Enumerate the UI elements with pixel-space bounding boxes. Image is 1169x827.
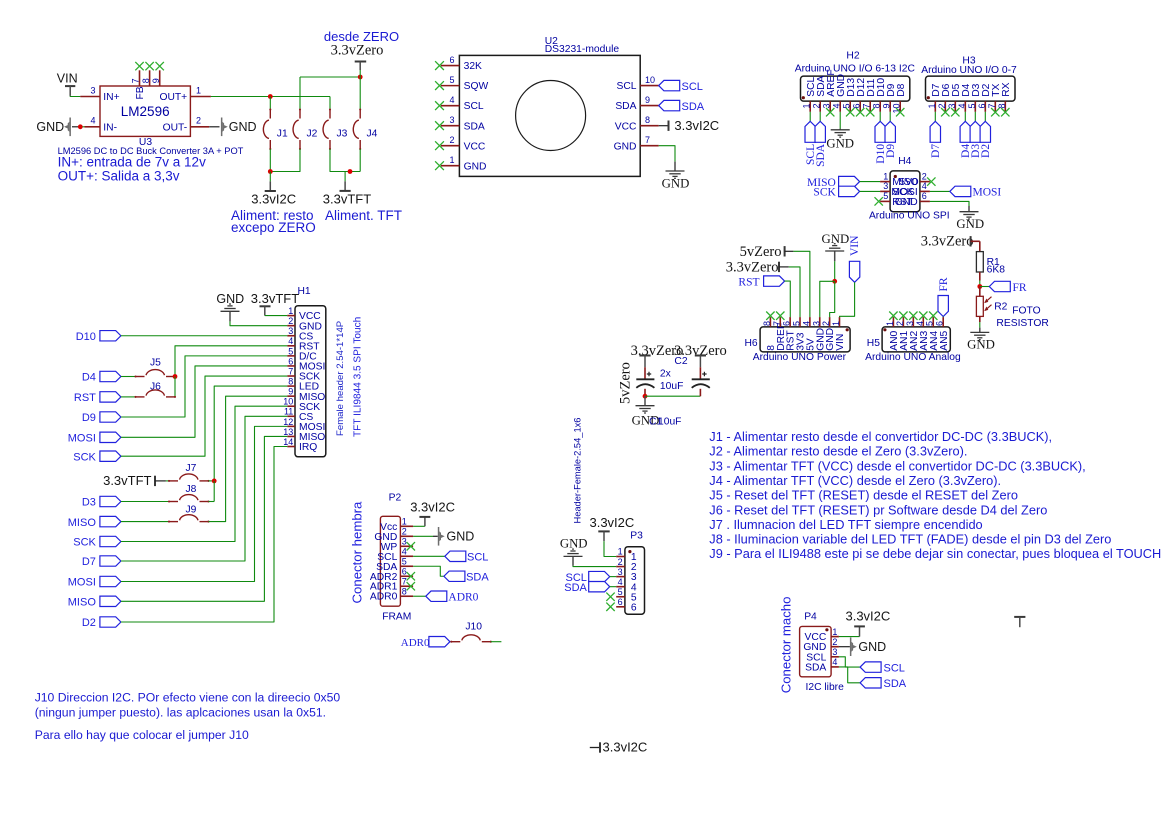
- svg-text:D10: D10: [76, 331, 96, 343]
- jumper J2: [299, 108, 301, 110]
- no-connect H4 pin 5: [875, 197, 883, 205]
- power flag 3.3vI2C loose bottom: [590, 747, 600, 749]
- P3 pin 3: [616, 576, 625, 578]
- svg-text:RESISTOR: RESISTOR: [996, 318, 1048, 329]
- svg-text:4: 4: [402, 546, 407, 556]
- H1 pin 10 SCK: [287, 405, 295, 407]
- svg-text:6: 6: [402, 566, 407, 576]
- wire 3.3vI2C to P3 pin 1: [604, 541, 616, 556]
- svg-text:GND: GND: [662, 177, 690, 191]
- svg-text:J1: J1: [277, 129, 288, 140]
- svg-text:SCK: SCK: [73, 451, 96, 463]
- H1 pin 12 MOSI: [287, 425, 295, 427]
- svg-text:SDA: SDA: [682, 101, 705, 113]
- svg-text:2: 2: [288, 316, 293, 326]
- svg-text:1: 1: [196, 85, 201, 95]
- svg-text:TFT ILI9844 3.5 SPI Touch: TFT ILI9844 3.5 SPI Touch: [352, 317, 363, 437]
- svg-text:RST: RST: [738, 276, 759, 288]
- label D9 below H2: [889, 112, 891, 122]
- svg-text:4: 4: [957, 104, 967, 109]
- svg-text:9: 9: [288, 387, 293, 397]
- P3 pin 2: [616, 566, 625, 568]
- svg-text:SCK: SCK: [813, 187, 836, 199]
- svg-text:VIN: VIN: [835, 334, 846, 351]
- H1 pin 9 MISO: [287, 395, 295, 397]
- svg-text:6: 6: [782, 321, 792, 326]
- svg-text:H1: H1: [298, 286, 311, 297]
- label MISO at H4 pin 1: [839, 176, 860, 186]
- svg-text:5: 5: [288, 346, 293, 356]
- svg-text:2: 2: [937, 104, 947, 109]
- svg-text:1: 1: [885, 321, 895, 326]
- label D4 below H3: [964, 112, 966, 122]
- wire J4 bottom: [359, 149, 361, 172]
- svg-text:3: 3: [449, 115, 454, 125]
- label SDA below H2: [819, 112, 821, 122]
- svg-text:7: 7: [772, 321, 782, 326]
- wire J4 top: [359, 77, 361, 110]
- svg-text:IRQ: IRQ: [299, 442, 317, 453]
- H1 pin 13 MISO: [287, 435, 295, 437]
- wire J5 to J6: [174, 377, 176, 397]
- svg-text:J5 - Reset del TFT (RESET) des: J5 - Reset del TFT (RESET) desde el RESE…: [709, 488, 1018, 503]
- U3 pin 4 IN-: [72, 126, 79, 128]
- svg-text:10: 10: [283, 397, 293, 407]
- svg-text:3.3vZero: 3.3vZero: [331, 43, 384, 59]
- U2 pin 2 VCC: [441, 145, 460, 147]
- svg-text:R2: R2: [994, 301, 1007, 312]
- P3 pin 1: [616, 556, 625, 558]
- svg-text:J4: J4: [367, 129, 378, 140]
- label MISO to H1 pin 13: [100, 596, 121, 606]
- svg-text:P2: P2: [389, 493, 402, 504]
- svg-text:3.3vTFT: 3.3vTFT: [323, 192, 371, 207]
- svg-text:2: 2: [449, 135, 454, 145]
- no-connect P3 pin 5: [606, 593, 614, 601]
- junction OUT+ at J1: [268, 94, 273, 99]
- svg-text:4: 4: [618, 577, 623, 587]
- svg-text:8: 8: [402, 586, 407, 596]
- H1 pin 4 RST: [287, 345, 295, 347]
- no-connect H2 pin 3: [826, 108, 834, 116]
- svg-text:1: 1: [927, 104, 937, 109]
- svg-text:6: 6: [618, 597, 623, 607]
- svg-text:6: 6: [977, 104, 987, 109]
- svg-text:3.3vI2C: 3.3vI2C: [251, 192, 296, 207]
- svg-text:3.3vTFT: 3.3vTFT: [251, 291, 299, 306]
- svg-text:Arduino UNO Power: Arduino UNO Power: [753, 352, 847, 363]
- svg-text:SDA: SDA: [466, 571, 489, 583]
- svg-text:H6: H6: [745, 338, 758, 349]
- label D10 to H1 pin 3: [100, 331, 121, 341]
- power flag 3.3vI2C at U2 VCC: [659, 125, 669, 127]
- wire 3.3vZero bus: [300, 76, 360, 78]
- svg-text:SCL: SCL: [682, 81, 703, 93]
- svg-text:3.3vI2C: 3.3vI2C: [603, 740, 648, 755]
- junction 3.3vZero at J4: [358, 75, 363, 80]
- power symbol GND left of U3: [69, 118, 71, 137]
- svg-text:6: 6: [922, 191, 927, 201]
- svg-text:1: 1: [802, 104, 812, 109]
- svg-text:J10 Direccion I2C. POr efecto: J10 Direccion I2C. POr efecto viene con …: [35, 691, 341, 705]
- svg-text:1: 1: [883, 171, 888, 181]
- svg-text:GND: GND: [956, 217, 984, 231]
- svg-text:RST: RST: [74, 392, 96, 404]
- svg-text:3.3vI2C: 3.3vI2C: [589, 515, 634, 530]
- no-connect H3 pin 8: [1001, 108, 1009, 116]
- H1 pin 6 MOSI: [287, 365, 295, 367]
- svg-text:8: 8: [997, 104, 1007, 109]
- junction J5 right: [173, 374, 178, 379]
- wire C1 to C2 bottom: [645, 395, 700, 397]
- junction at IN- / GND: [78, 124, 83, 129]
- wire H1 pin 8 LED to J7: [214, 386, 287, 481]
- label D2 below H3: [984, 112, 986, 122]
- svg-text:DS3231-module: DS3231-module: [545, 44, 620, 55]
- no-connect H2 pin 6: [856, 108, 864, 116]
- no-connect H6 pin 8: [766, 312, 774, 320]
- svg-text:J8 - Iluminacion variable del: J8 - Iluminacion variable del LED TFT (F…: [709, 532, 1111, 547]
- svg-text:7: 7: [987, 104, 997, 109]
- svg-text:3: 3: [811, 321, 821, 326]
- wire GND to P3 pin 2: [573, 565, 616, 568]
- label RST at H6: [764, 276, 785, 286]
- power symbol GND at P2: [413, 535, 433, 537]
- svg-text:J7 . Ilumnacion del LED TFT si: J7 . Ilumnacion del LED TFT siempre ence…: [709, 517, 982, 532]
- svg-text:GND: GND: [895, 197, 918, 208]
- no-connect H6 pin 7: [776, 312, 784, 320]
- wire RST to H6: [785, 281, 791, 317]
- label MISO to J9: [100, 516, 121, 526]
- svg-text:GND: GND: [464, 161, 487, 172]
- wire J3 top: [329, 97, 331, 110]
- svg-text:FR: FR: [938, 277, 950, 291]
- wire 3.3vTFT to H1 pin 1: [265, 315, 288, 317]
- svg-text:4: 4: [832, 104, 842, 109]
- svg-text:2: 2: [196, 116, 201, 126]
- label SCK to H1 pin 10: [100, 536, 121, 546]
- svg-text:7: 7: [645, 135, 650, 145]
- svg-text:J3 - Alimentar TFT (VCC) desde: J3 - Alimentar TFT (VCC) desde el conver…: [709, 458, 1085, 473]
- svg-text:10uF: 10uF: [658, 416, 681, 427]
- svg-text:IN-: IN-: [103, 123, 117, 134]
- P3 pin 4: [616, 586, 625, 588]
- label D10 below H2: [879, 112, 881, 122]
- U2 pin 1 GND: [441, 165, 460, 167]
- svg-text:SDA: SDA: [884, 678, 907, 690]
- wire VIN to pin 3: [70, 95, 80, 98]
- U2 pin 8 VCC: [640, 125, 659, 127]
- wire J2 bottom: [270, 149, 300, 172]
- label SCL below H2: [809, 112, 811, 122]
- wire J1 bottom: [269, 149, 271, 172]
- svg-text:32K: 32K: [464, 61, 482, 72]
- power flag 3.3vI2C at P2: [413, 525, 425, 527]
- svg-text:VIN: VIN: [849, 235, 861, 256]
- U2 pin 3 SDA: [441, 125, 460, 127]
- svg-text:SCK: SCK: [73, 537, 96, 549]
- H1 pin 5 D/C: [287, 355, 295, 357]
- svg-text:5: 5: [967, 104, 977, 109]
- label D7 to H1 pin 11: [100, 556, 121, 566]
- svg-text:D3: D3: [82, 497, 96, 509]
- no-connect H5 pin 5: [929, 312, 937, 320]
- H4 row pins 1 2: [880, 181, 890, 183]
- svg-text:1: 1: [618, 547, 623, 557]
- svg-text:7: 7: [131, 78, 141, 83]
- svg-text:AN5: AN5: [939, 330, 950, 350]
- svg-text:8: 8: [141, 78, 151, 83]
- svg-text:D9: D9: [82, 412, 96, 424]
- jumper J8: [168, 500, 170, 502]
- svg-text:MOSI: MOSI: [68, 577, 96, 589]
- ground at H4: [968, 206, 970, 212]
- svg-text:8: 8: [872, 104, 882, 109]
- svg-text:OUT+: OUT+: [159, 92, 187, 103]
- svg-text:Conector macho: Conector macho: [778, 597, 793, 694]
- junction below C1: [643, 394, 648, 399]
- svg-text:7: 7: [402, 576, 407, 586]
- label SDA at P4: [839, 667, 860, 683]
- svg-text:3.3vZero: 3.3vZero: [726, 259, 779, 275]
- no-connect H3 pin 3: [951, 108, 959, 116]
- svg-text:9: 9: [645, 95, 650, 105]
- svg-text:13: 13: [283, 427, 293, 437]
- junction J7 right: [209, 480, 215, 482]
- svg-text:J7: J7: [186, 463, 197, 474]
- U2 pin 9 SDA: [640, 105, 659, 107]
- svg-text:LM2596: LM2596: [121, 104, 170, 119]
- svg-text:J2 - Alimentar resto desde el: J2 - Alimentar resto desde el Zero (3.3v…: [709, 444, 967, 459]
- svg-text:9: 9: [151, 78, 161, 83]
- svg-text:2: 2: [832, 637, 837, 647]
- ground below R2: [979, 328, 981, 333]
- no-connect H4 pin 2: [927, 177, 935, 185]
- U2 pin 7 GND: [640, 145, 659, 147]
- svg-text:SCL: SCL: [467, 551, 488, 563]
- svg-text:1: 1: [449, 155, 454, 165]
- U2 pin 6 32K: [441, 65, 460, 67]
- wire 3.3vZero to R1: [971, 240, 980, 242]
- wire U2 GND: [659, 146, 675, 162]
- svg-text:SCL: SCL: [616, 81, 636, 92]
- svg-text:Arduino UNO I/O 0-7: Arduino UNO I/O 0-7: [921, 65, 1017, 76]
- svg-text:4: 4: [801, 321, 811, 326]
- svg-text:3.3vI2C: 3.3vI2C: [674, 118, 719, 133]
- U3 pin 1 OUT+: [190, 96, 211, 98]
- svg-text:D7: D7: [82, 556, 96, 568]
- svg-text:3.3vZero: 3.3vZero: [921, 234, 974, 250]
- svg-text:D4: D4: [82, 372, 96, 384]
- svg-text:desde ZERO: desde ZERO: [324, 29, 399, 44]
- svg-text:5vZero: 5vZero: [740, 244, 782, 260]
- svg-text:J8: J8: [186, 484, 197, 495]
- label MOSI at H4 pin 4: [930, 190, 950, 192]
- svg-text:3: 3: [883, 181, 888, 191]
- svg-text:P4: P4: [804, 612, 817, 623]
- label SCL at U2: [659, 80, 680, 90]
- label D3 to J8: [100, 496, 121, 506]
- wire R1 to junction: [979, 272, 981, 281]
- svg-text:3: 3: [288, 326, 293, 336]
- svg-text:P3: P3: [630, 531, 643, 542]
- label FR at divider: [980, 286, 990, 288]
- svg-text:2: 2: [895, 321, 905, 326]
- power bar symbol loose right: [1014, 616, 1025, 618]
- label ADR0 at P2: [413, 595, 426, 597]
- H1 pin 3 CS: [287, 335, 295, 337]
- svg-text:3: 3: [402, 536, 407, 546]
- svg-text:RX: RX: [1001, 82, 1012, 96]
- no-connect P2 WP: [407, 542, 415, 550]
- ground at H2 pin 4: [839, 112, 841, 129]
- svg-text:D9: D9: [885, 144, 897, 158]
- svg-text:D2: D2: [82, 617, 96, 629]
- svg-text:MISO: MISO: [68, 597, 97, 609]
- svg-text:5: 5: [449, 75, 454, 85]
- svg-text:excepo ZERO: excepo ZERO: [231, 220, 316, 235]
- svg-text:3: 3: [90, 85, 95, 95]
- svg-text:J2: J2: [307, 129, 318, 140]
- jumper J7: [168, 480, 170, 482]
- wire VIN to H6: [840, 282, 855, 317]
- svg-text:6: 6: [449, 55, 454, 65]
- svg-text:7: 7: [288, 366, 293, 376]
- U2 pin 5 SQW: [441, 85, 460, 87]
- junction GND wire H6: [832, 279, 837, 284]
- svg-text:6: 6: [631, 602, 637, 613]
- svg-text:(ningun jumper puesto). las ap: (ningun jumper puesto). las aplcaciones …: [35, 706, 326, 720]
- photoresistor R2: [979, 287, 981, 297]
- jumper J5: [134, 375, 136, 377]
- svg-text:8: 8: [645, 115, 650, 125]
- svg-text:MOSI: MOSI: [973, 187, 1002, 199]
- svg-text:ADR0: ADR0: [370, 592, 398, 603]
- no-connect H5 pin 3: [909, 312, 917, 320]
- junction J1 J2 bottom: [268, 169, 273, 174]
- no-connect H3 pin 2: [941, 108, 949, 116]
- svg-text:12: 12: [283, 417, 293, 427]
- svg-text:GND: GND: [826, 137, 854, 151]
- svg-text:10: 10: [645, 75, 655, 85]
- svg-text:Para ello hay que colocar el j: Para ello hay que colocar el jumper J10: [35, 728, 249, 742]
- svg-text:7: 7: [862, 104, 872, 109]
- svg-text:5: 5: [402, 556, 407, 566]
- svg-text:SDA: SDA: [615, 101, 636, 112]
- svg-text:VCC: VCC: [464, 141, 486, 152]
- svg-text:OUT+: Salida a 3,3v: OUT+: Salida a 3,3v: [58, 169, 180, 184]
- label D9 to H1 pin 5: [100, 412, 121, 422]
- P3 pin 5: [616, 596, 625, 598]
- svg-text:I2C libre: I2C libre: [806, 682, 845, 693]
- svg-text:J10: J10: [465, 622, 482, 633]
- wire OUT+ bus: [211, 96, 330, 98]
- label SCL at P3: [589, 571, 610, 581]
- svg-text:2: 2: [812, 104, 822, 109]
- svg-text:FOTO: FOTO: [1012, 306, 1040, 317]
- svg-text:VIN: VIN: [57, 72, 78, 86]
- label D7 below H3: [934, 112, 936, 122]
- H4 row pins 5 6: [880, 200, 890, 202]
- ground at U2: [674, 162, 676, 171]
- U3 pin 2 OUT-: [190, 126, 209, 128]
- label D3 below H3: [974, 112, 976, 122]
- svg-text:J9: J9: [186, 504, 197, 515]
- label D2 to H1 pin 14: [100, 617, 121, 627]
- svg-text:3: 3: [618, 567, 623, 577]
- svg-text:FB: FB: [135, 86, 146, 99]
- svg-text:4: 4: [922, 181, 927, 191]
- svg-text:SDA: SDA: [815, 143, 827, 167]
- svg-text:H2: H2: [846, 51, 859, 62]
- wire 3.3vZero to H6 3V3: [789, 267, 800, 317]
- power flag 3.3vTFT below J3: [344, 172, 346, 182]
- svg-text:J6 - Reset del TFT (RESET) pr: J6 - Reset del TFT (RESET) pr Software d…: [709, 502, 1047, 517]
- svg-text:MOSI: MOSI: [68, 433, 96, 445]
- no-connect H5 pin 2: [899, 312, 907, 320]
- svg-text:D2: D2: [980, 144, 992, 158]
- U3 top pins 7 8 9 FB: [139, 70, 141, 86]
- no-connect H5 pin 1: [889, 312, 897, 320]
- svg-text:1: 1: [832, 627, 837, 637]
- svg-text:SDA: SDA: [564, 582, 587, 594]
- svg-text:MISO: MISO: [68, 517, 97, 529]
- svg-text:H4: H4: [898, 156, 911, 167]
- no-connect H5 pin 4: [919, 312, 927, 320]
- svg-text:5vZero: 5vZero: [618, 362, 634, 404]
- wire H1 pin 4 RST to J5 J6: [175, 346, 287, 377]
- H1 pin 2 GND: [287, 325, 295, 327]
- P3 pin 6: [616, 606, 625, 608]
- svg-text:H5: H5: [867, 338, 880, 349]
- svg-text:3: 3: [832, 647, 837, 657]
- no-connect P2 ADR2: [407, 572, 415, 580]
- svg-text:Conector hembra: Conector hembra: [350, 501, 365, 604]
- no-connect H2 pin 7: [866, 108, 874, 116]
- svg-text:Female header 2.54-1*14P: Female header 2.54-1*14P: [335, 321, 346, 436]
- svg-text:FRAM: FRAM: [382, 612, 411, 623]
- label MOSI to H1 pin 12: [100, 576, 121, 586]
- U2 pin 4 SCL: [441, 105, 460, 107]
- svg-text:D8: D8: [896, 83, 907, 96]
- U2 pin 10 SCL: [640, 85, 659, 87]
- svg-text:4: 4: [832, 657, 837, 667]
- svg-text:6: 6: [852, 104, 862, 109]
- junction R1 R2 FR: [977, 284, 982, 289]
- svg-text:ADR0: ADR0: [401, 637, 430, 649]
- power symbol GND right of U3: [209, 126, 219, 128]
- label D4 to J5: [100, 371, 121, 381]
- svg-text:6: 6: [288, 356, 293, 366]
- label SCL at P4: [839, 657, 860, 667]
- svg-text:5: 5: [883, 191, 888, 201]
- svg-text:FR: FR: [1013, 282, 1027, 294]
- svg-text:2: 2: [821, 321, 831, 326]
- svg-text:IN+: IN+: [103, 92, 119, 103]
- wire J10 right: [491, 641, 502, 643]
- svg-text:C2: C2: [674, 356, 687, 367]
- svg-text:GND: GND: [614, 141, 637, 152]
- svg-text:8: 8: [288, 376, 293, 386]
- jumper J9: [168, 521, 170, 523]
- svg-text:3: 3: [947, 104, 957, 109]
- H4 row pins 3 4: [880, 190, 890, 192]
- wire J9 to H1 pin 9: [209, 396, 288, 521]
- H1 pin 8 LED: [287, 385, 295, 387]
- U3 pin 3 IN+: [80, 96, 100, 98]
- svg-text:ADR0: ADR0: [448, 591, 478, 603]
- svg-text:10uF: 10uF: [660, 381, 683, 392]
